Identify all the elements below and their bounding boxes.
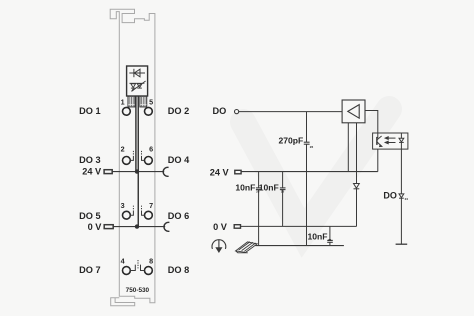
LED pair inside LED box — [129, 81, 145, 91]
svg-text:6: 6 — [149, 144, 153, 153]
contact strip hatch left (pin 1) — [128, 96, 135, 107]
clamp terminal pin4 — [123, 267, 131, 275]
0V junction dot on bus — [135, 224, 139, 228]
svg-text:3: 3 — [121, 201, 125, 210]
clamp terminal pin2 — [123, 157, 131, 165]
contact strip hatch right (pin 5) — [140, 96, 147, 107]
DO input terminal — [235, 110, 239, 114]
pin6 hook wire — [142, 151, 145, 161]
svg-text:8: 8 — [149, 256, 153, 265]
svg-text:10nF: 10nF — [307, 232, 327, 242]
diode D3 output — [399, 194, 404, 198]
svg-text:DO: DO — [213, 106, 227, 116]
clamp terminal pin6 — [145, 157, 153, 165]
24V feed wire through module — [112, 171, 164, 173]
svg-text:7: 7 — [149, 201, 153, 210]
capacitor C2 10nF — [256, 188, 262, 190]
opto LED D2 — [399, 133, 404, 149]
svg-text:DO 6: DO 6 — [168, 211, 189, 221]
0V schematic connector plug — [234, 225, 240, 229]
24V rail wire — [241, 171, 378, 173]
svg-text:25: 25 — [281, 189, 285, 193]
earth icon — [212, 240, 226, 252]
wire DO to C1 down to earth — [306, 112, 308, 142]
opto light arrows — [385, 137, 395, 144]
phototransistor Q1 — [377, 133, 382, 147]
svg-text:DO: DO — [383, 191, 397, 201]
svg-text:DO 3: DO 3 — [79, 155, 100, 165]
24V supply connector plug — [104, 170, 112, 174]
svg-text:DO 2: DO 2 — [168, 106, 189, 116]
status LED box U-LED — [127, 66, 148, 96]
clamp terminal pin3 — [123, 211, 131, 219]
0V feed wire through module — [113, 226, 165, 228]
svg-text:24 V: 24 V — [82, 166, 102, 176]
DIN rail contact icon — [236, 242, 258, 253]
svg-text:4: 4 — [121, 256, 125, 265]
module body outline 750-530 — [110, 9, 155, 302]
capacitor C4 wire 0V to earth — [329, 226, 331, 240]
driver triangle — [348, 105, 359, 119]
24V schematic connector plug — [235, 170, 241, 174]
capacitor C3 wire 24V to 0V — [282, 172, 284, 188]
capacitor C4 10nF — [327, 240, 333, 242]
svg-text:0 V: 0 V — [213, 222, 228, 232]
wire driver to optocoupler — [365, 111, 378, 134]
0V supply connector plug — [104, 225, 113, 229]
svg-text:DO 8: DO 8 — [168, 265, 189, 275]
capacitor C2 wire 24V to earth — [258, 172, 260, 188]
svg-text:24: 24 — [405, 197, 409, 201]
svg-text:10nF: 10nF — [235, 182, 255, 192]
clamp terminal pin8 — [145, 267, 153, 275]
internal 24V bus line — [135, 96, 137, 172]
pin2 hook wire — [130, 151, 133, 161]
capacitor C1 270pF — [304, 142, 310, 144]
svg-text:10nF: 10nF — [259, 182, 279, 192]
pin3 hook wire — [130, 205, 133, 215]
svg-text:0 V: 0 V — [88, 222, 103, 232]
module bottom latch foot — [111, 298, 135, 306]
svg-text:DO 1: DO 1 — [79, 106, 100, 116]
24V junction dot on bus — [135, 169, 139, 173]
24V power jumper contact crescent — [163, 167, 168, 176]
opto emitter wire to 24V — [377, 149, 379, 172]
DO output wire — [400, 149, 402, 194]
svg-text:270pF: 270pF — [278, 136, 303, 146]
svg-text:24 V: 24 V — [210, 167, 230, 177]
watermark swoosh — [243, 109, 389, 233]
0V power jumper contact crescent — [164, 222, 169, 231]
svg-text:1: 1 — [121, 98, 125, 107]
clamp terminal pin7 — [145, 211, 153, 219]
internal 0V bus line — [137, 96, 139, 227]
svg-text:DO 4: DO 4 — [168, 155, 190, 165]
svg-text:26: 26 — [328, 238, 332, 242]
pin8 jumper hook wire — [141, 265, 145, 271]
svg-text:5: 5 — [149, 98, 153, 107]
clamp terminal pin1 — [123, 107, 131, 115]
driver box U1 — [342, 100, 365, 123]
driver supply wire right / diode branch — [356, 123, 358, 184]
diode inside LED box — [129, 69, 145, 77]
svg-text:750-530: 750-530 — [126, 287, 150, 294]
pin4 jumper hook wire — [130, 260, 138, 271]
clamp terminal pin5 — [145, 107, 153, 115]
svg-text:2: 2 — [121, 144, 125, 153]
DO output end bar — [396, 243, 408, 245]
earth/shield rail wire — [255, 245, 344, 247]
diode D1 — [354, 184, 360, 189]
svg-text:26: 26 — [310, 145, 314, 149]
0V rail wire — [241, 225, 357, 227]
svg-text:DO 7: DO 7 — [79, 265, 100, 275]
optocoupler box U2 — [373, 133, 408, 149]
svg-text:DO 5: DO 5 — [79, 211, 100, 221]
pin7 hook wire — [142, 205, 145, 215]
DO wire to driver — [239, 111, 342, 113]
driver supply wire left — [347, 123, 349, 172]
capacitor C3 10nF — [280, 188, 286, 190]
